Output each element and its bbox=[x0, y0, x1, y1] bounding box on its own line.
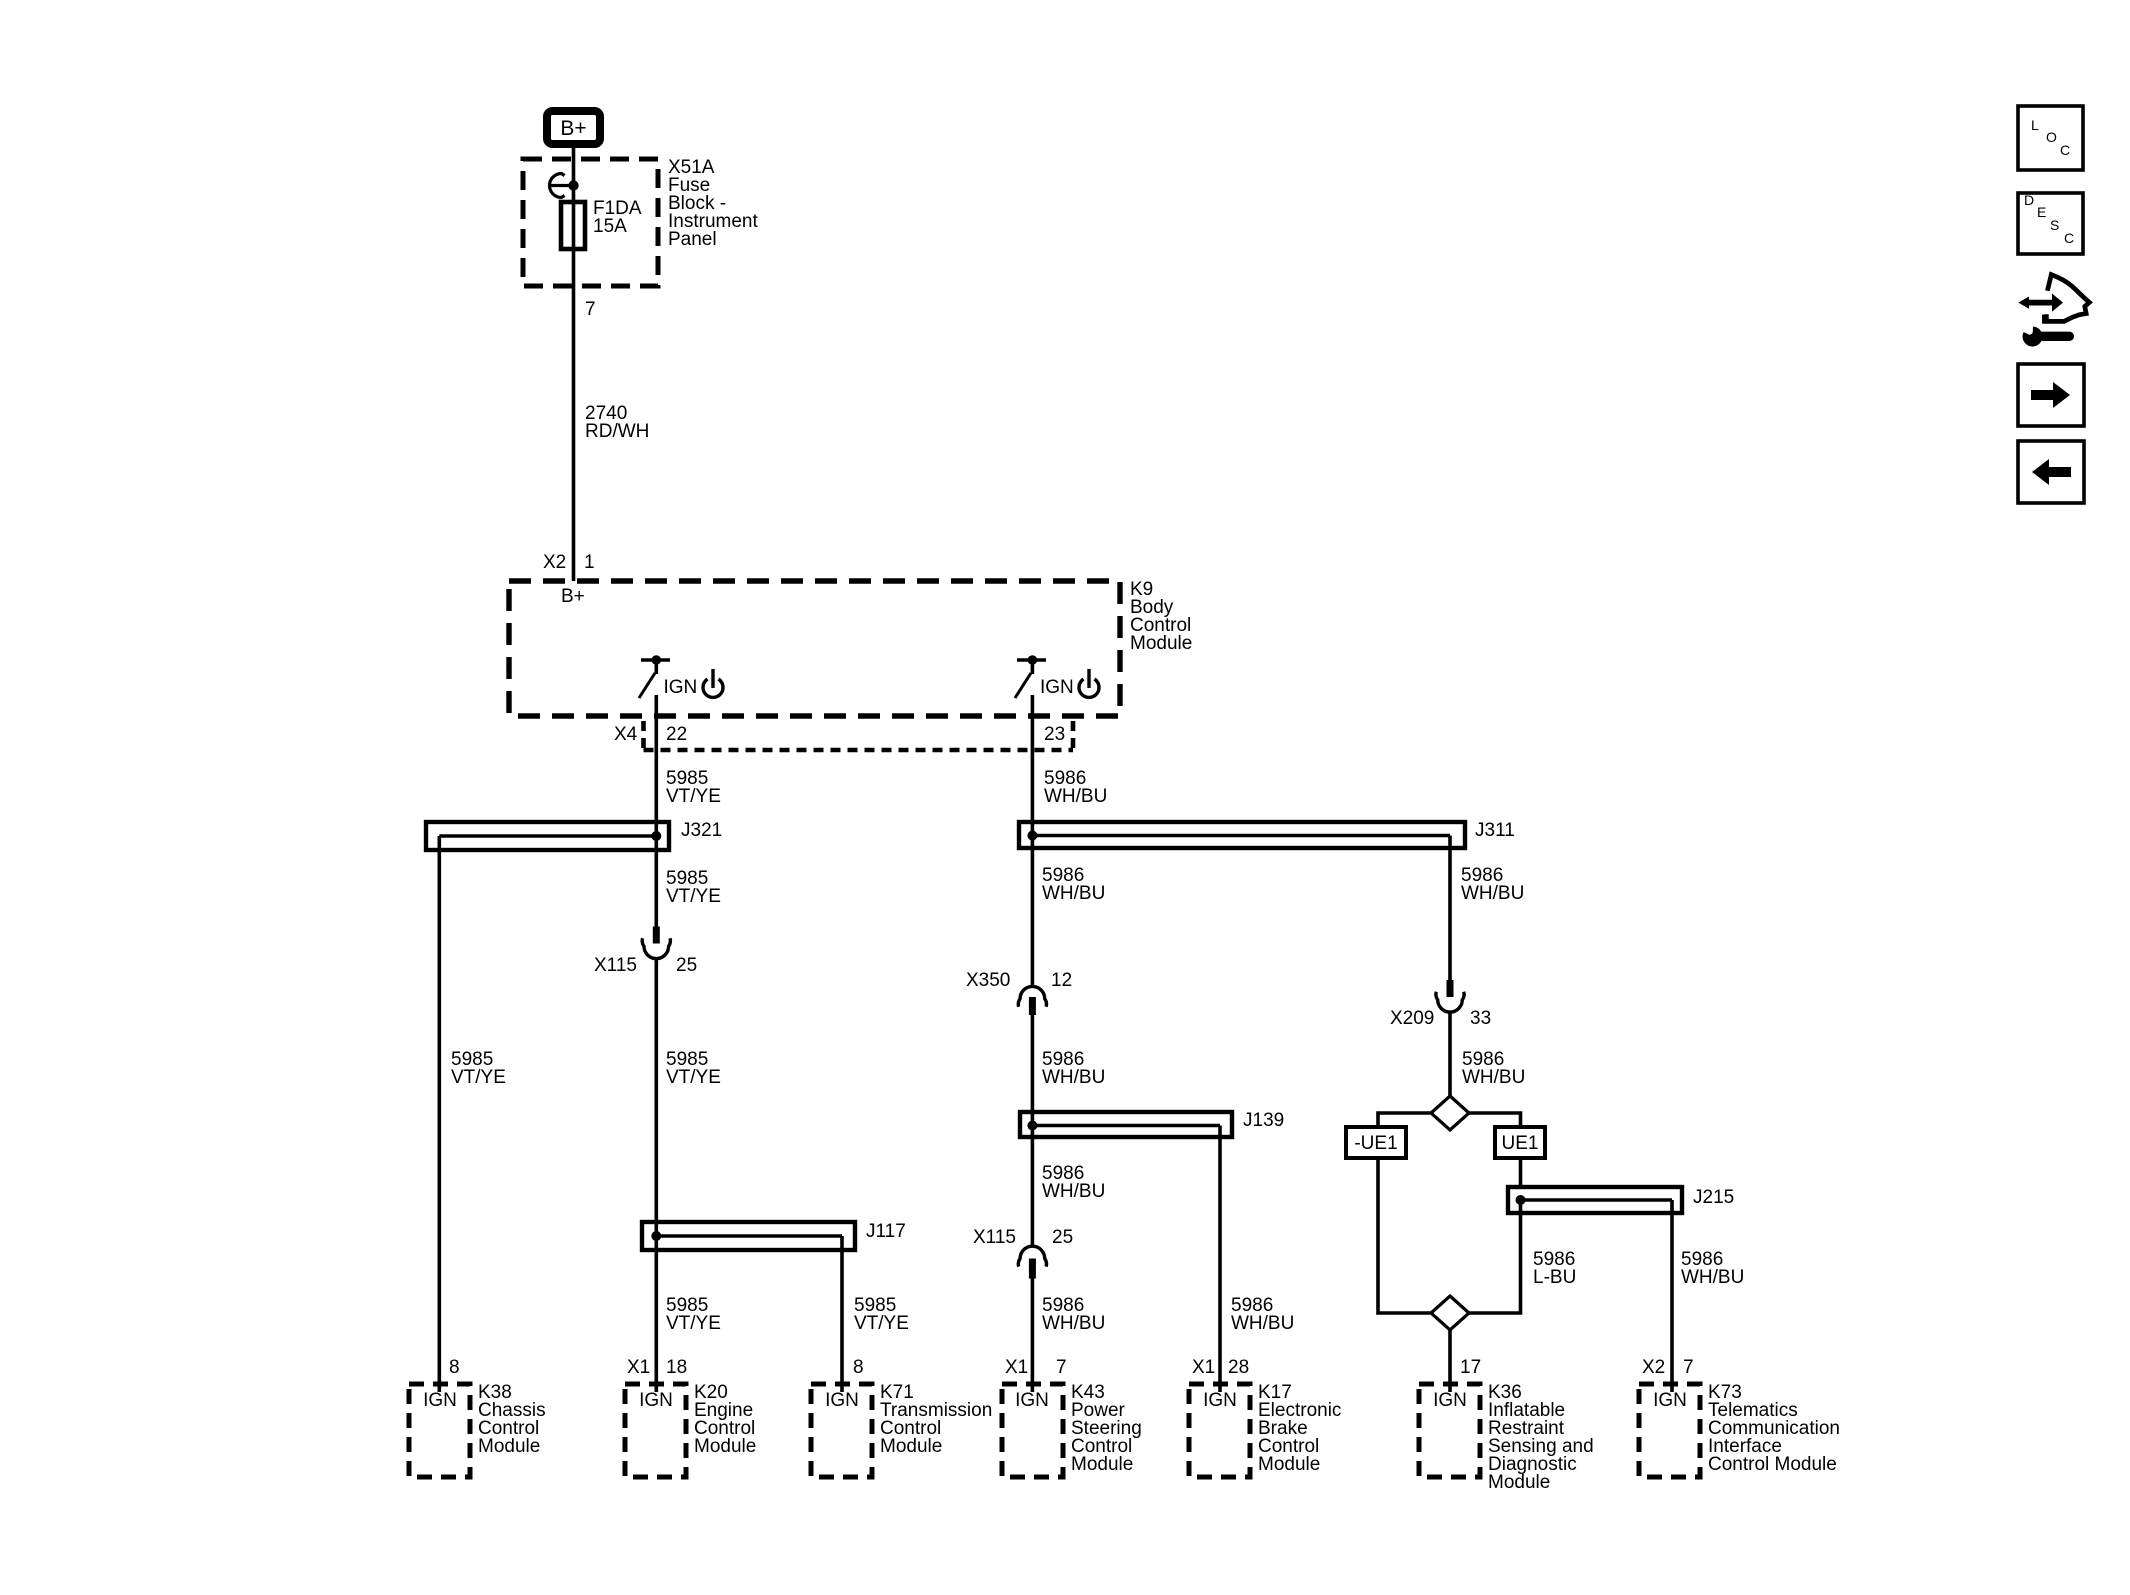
junction dot J215 bbox=[1516, 1195, 1526, 1205]
wire J215 down to lower diamond bbox=[1469, 1200, 1521, 1313]
splice pack J117 bbox=[642, 1222, 855, 1250]
svg-text:VT/YE: VT/YE bbox=[666, 786, 721, 807]
wire label 5986 WH/BU below X209 bbox=[1462, 1049, 1525, 1088]
svg-text:X1: X1 bbox=[1192, 1357, 1215, 1378]
wire label 5985 VT/YE left column bbox=[666, 1049, 721, 1088]
svg-text:17: 17 bbox=[1460, 1357, 1481, 1378]
power steering control module K43 dashed box bbox=[1002, 1384, 1063, 1477]
wire label 5985 VT/YE below J321 bbox=[666, 868, 721, 907]
connector X2 pin 7 labels K73 bbox=[1642, 1357, 1694, 1378]
svg-text:28: 28 bbox=[1228, 1357, 1249, 1378]
connector X1 pin 18 labels K20 bbox=[627, 1357, 687, 1378]
wire label 5985 VT/YE above J321 bbox=[666, 768, 721, 807]
svg-text:J215: J215 bbox=[1693, 1187, 1734, 1208]
fuse block internal terminal hook bbox=[550, 174, 573, 198]
wire diamond to -UE1 bbox=[1378, 1113, 1431, 1127]
next page button bbox=[2018, 364, 2084, 426]
svg-text:IGN: IGN bbox=[639, 1390, 673, 1411]
svg-text:IGN: IGN bbox=[1433, 1390, 1467, 1411]
fuse value label bbox=[593, 198, 642, 237]
wire label 5986 WH/BU middle column bbox=[1042, 1049, 1105, 1088]
svg-text:J117: J117 bbox=[866, 1221, 906, 1242]
wire label 5986 WH/BU above K17 bbox=[1231, 1295, 1294, 1334]
svg-text:Module: Module bbox=[1488, 1472, 1550, 1493]
svg-text:VT/YE: VT/YE bbox=[451, 1067, 506, 1088]
transmission control module K71 dashed box bbox=[811, 1384, 872, 1477]
inline connector X115 pin 25 (middle column) bbox=[1018, 1246, 1046, 1278]
svg-text:WH/BU: WH/BU bbox=[1044, 786, 1107, 807]
svg-text:O: O bbox=[2046, 129, 2057, 145]
connector X1 pin 28 labels K17 bbox=[1192, 1357, 1249, 1378]
inline connector X115 pin 25 (left column) bbox=[642, 927, 670, 959]
wire label 5986 L-BU bbox=[1533, 1249, 1576, 1288]
junction dot on right switch bbox=[1028, 655, 1038, 665]
K17 module name label bbox=[1258, 1382, 1341, 1475]
K36 module name label bbox=[1488, 1382, 1594, 1493]
svg-text:WH/BU: WH/BU bbox=[1461, 883, 1524, 904]
svg-text:1: 1 bbox=[584, 552, 595, 573]
svg-text:7: 7 bbox=[1683, 1357, 1694, 1378]
svg-text:RD/WH: RD/WH bbox=[585, 421, 649, 442]
wire label 5985 VT/YE above K71 bbox=[854, 1295, 909, 1334]
svg-text:X115: X115 bbox=[594, 955, 637, 976]
svg-text:Module: Module bbox=[478, 1436, 540, 1457]
svg-text:IGN: IGN bbox=[664, 677, 698, 698]
body control module K9 dashed box bbox=[509, 581, 1120, 716]
ignition switch right inside K9 bbox=[1015, 660, 1046, 698]
power icon right bbox=[1079, 669, 1099, 697]
svg-text:Module: Module bbox=[1071, 1454, 1133, 1475]
svg-text:VT/YE: VT/YE bbox=[666, 1067, 721, 1088]
wire J311 right branch to X209 bbox=[1448, 836, 1452, 981]
K73 module name label bbox=[1708, 1382, 1840, 1475]
svg-text:S: S bbox=[2050, 217, 2059, 233]
wire label 5986 WH/BU below J139 bbox=[1042, 1163, 1105, 1202]
svg-text:IGN: IGN bbox=[1015, 1390, 1049, 1411]
wire label 2740 RD/WH bbox=[585, 403, 649, 442]
svg-text:8: 8 bbox=[853, 1357, 864, 1378]
svg-text:22: 22 bbox=[666, 724, 687, 745]
telematics module K73 dashed box bbox=[1639, 1384, 1700, 1477]
wire B+ to fuse block and down to K9 pin 1 bbox=[572, 148, 576, 581]
svg-text:X4: X4 bbox=[614, 724, 638, 745]
svg-text:IGN: IGN bbox=[1653, 1390, 1687, 1411]
wire lower diamond to K36 bbox=[1448, 1330, 1452, 1392]
connector X1 pin 7 labels K43 bbox=[1005, 1357, 1067, 1378]
wire 5986 right switch through X4 pin 23 to J311 and X350 bbox=[1031, 695, 1035, 987]
svg-text:18: 18 bbox=[666, 1357, 687, 1378]
svg-text:-UE1: -UE1 bbox=[1354, 1133, 1397, 1154]
svg-text:Control Module: Control Module bbox=[1708, 1454, 1837, 1475]
wire X209 to upper splice diamond bbox=[1448, 1012, 1452, 1098]
svg-text:B+: B+ bbox=[561, 586, 585, 607]
svg-text:7: 7 bbox=[1056, 1357, 1067, 1378]
wire J139 right branch to K17 bbox=[1218, 1126, 1222, 1393]
svg-text:Module: Module bbox=[1258, 1454, 1320, 1475]
net tag UE1 bbox=[1495, 1127, 1545, 1158]
K9 module name label bbox=[1130, 579, 1192, 654]
K43 module name label bbox=[1071, 1382, 1142, 1475]
electronic brake control module K17 dashed box bbox=[1189, 1384, 1250, 1477]
connector X4 dashed outline bbox=[644, 721, 1074, 750]
junction dot on left switch bbox=[652, 655, 662, 665]
svg-text:Module: Module bbox=[880, 1436, 942, 1457]
inline connector X209 pin 33 (right column) bbox=[1436, 980, 1464, 1012]
wire 5985 left switch through X4 pin 22 to J321 and X115 bbox=[654, 695, 658, 927]
junction dot J321 bbox=[651, 831, 661, 841]
wire J321 left branch to K38 bbox=[437, 836, 441, 1392]
wire label 5986 WH/BU J215 branch bbox=[1681, 1249, 1744, 1288]
junction dot J139 bbox=[1027, 1121, 1037, 1131]
svg-text:23: 23 bbox=[1044, 724, 1065, 745]
svg-text:X115: X115 bbox=[973, 1227, 1016, 1248]
lower splice diamond bbox=[1431, 1296, 1469, 1330]
wire J215 right branch to K73 bbox=[1670, 1200, 1674, 1392]
svg-text:VT/YE: VT/YE bbox=[854, 1313, 909, 1334]
svg-text:25: 25 bbox=[1052, 1227, 1073, 1248]
svg-text:VT/YE: VT/YE bbox=[666, 886, 721, 907]
splice pack J311 bbox=[1019, 822, 1465, 848]
inflatable restraint module K36 dashed box bbox=[1419, 1384, 1480, 1477]
junction dot at fuse feed bbox=[568, 180, 578, 190]
wire -UE1 down to lower diamond bbox=[1378, 1158, 1431, 1313]
svg-text:VT/YE: VT/YE bbox=[666, 1313, 721, 1334]
splice pack J215 bbox=[1508, 1187, 1682, 1213]
K38 module name label bbox=[478, 1382, 546, 1457]
svg-text:25: 25 bbox=[676, 955, 697, 976]
net tag -UE1 bbox=[1346, 1127, 1406, 1158]
svg-text:12: 12 bbox=[1051, 970, 1072, 991]
svg-text:IGN: IGN bbox=[1203, 1390, 1237, 1411]
svg-text:X1: X1 bbox=[1005, 1357, 1028, 1378]
svg-text:WH/BU: WH/BU bbox=[1462, 1067, 1525, 1088]
K71 module name label bbox=[880, 1382, 992, 1457]
svg-text:WH/BU: WH/BU bbox=[1042, 1067, 1105, 1088]
DESC button bbox=[2018, 192, 2083, 254]
svg-text:Module: Module bbox=[694, 1436, 756, 1457]
svg-text:E: E bbox=[2037, 204, 2046, 220]
engine control module K20 dashed box bbox=[625, 1384, 686, 1477]
junction dot J117 bbox=[651, 1231, 661, 1241]
K20 module name label bbox=[694, 1382, 756, 1457]
svg-text:D: D bbox=[2024, 192, 2034, 208]
LOC button bbox=[2018, 106, 2083, 170]
svg-text:IGN: IGN bbox=[1040, 677, 1074, 698]
upper splice diamond bbox=[1431, 1096, 1469, 1130]
svg-text:WH/BU: WH/BU bbox=[1231, 1313, 1294, 1334]
wire 5986 X350 through J139 to X115 bbox=[1031, 1015, 1035, 1246]
svg-text:X350: X350 bbox=[966, 970, 1010, 991]
wire label 5986 WH/BU above J311 bbox=[1044, 768, 1107, 807]
svg-text:J311: J311 bbox=[1475, 820, 1515, 841]
svg-text:X2: X2 bbox=[543, 552, 566, 573]
junction dot J311 bbox=[1027, 831, 1037, 841]
svg-text:J321: J321 bbox=[681, 820, 722, 841]
svg-text:X2: X2 bbox=[1642, 1357, 1665, 1378]
svg-text:C: C bbox=[2060, 142, 2070, 158]
svg-text:WH/BU: WH/BU bbox=[1681, 1267, 1744, 1288]
schematic navigation icon bbox=[2018, 275, 2089, 347]
svg-text:33: 33 bbox=[1470, 1008, 1491, 1029]
svg-text:IGN: IGN bbox=[423, 1390, 457, 1411]
svg-text:15A: 15A bbox=[593, 216, 627, 237]
svg-text:Panel: Panel bbox=[668, 229, 717, 250]
svg-text:UE1: UE1 bbox=[1502, 1133, 1539, 1154]
fuse block name label bbox=[668, 157, 758, 250]
svg-text:L: L bbox=[2031, 117, 2039, 133]
fuse block X51A dashed box bbox=[523, 159, 658, 286]
wire label 5986 WH/BU above K43 bbox=[1042, 1295, 1105, 1334]
wire diamond to UE1 bbox=[1469, 1113, 1521, 1127]
chassis control module K38 dashed box bbox=[409, 1384, 470, 1477]
svg-text:WH/BU: WH/BU bbox=[1042, 883, 1105, 904]
wire 5985 X115 through J117 to K20 bbox=[654, 959, 658, 1393]
connector X2 pin 1 labels bbox=[543, 552, 595, 573]
svg-text:C: C bbox=[2064, 230, 2074, 246]
svg-text:IGN: IGN bbox=[825, 1390, 859, 1411]
svg-text:B+: B+ bbox=[560, 117, 586, 140]
svg-text:L-BU: L-BU bbox=[1533, 1267, 1576, 1288]
svg-text:X1: X1 bbox=[627, 1357, 650, 1378]
svg-text:J139: J139 bbox=[1243, 1110, 1284, 1131]
power icon left bbox=[703, 669, 723, 697]
wire UE1 down to J215 bbox=[1519, 1158, 1523, 1187]
wire label 5985 VT/YE K38 branch bbox=[451, 1049, 506, 1088]
svg-text:WH/BU: WH/BU bbox=[1042, 1181, 1105, 1202]
previous page button bbox=[2018, 441, 2084, 503]
splice pack J321 bbox=[426, 822, 669, 850]
wire J117 right branch to K71 bbox=[840, 1236, 844, 1392]
svg-text:8: 8 bbox=[449, 1357, 460, 1378]
splice pack J139 bbox=[1020, 1112, 1232, 1137]
fuse F1DA 15A bbox=[561, 202, 585, 249]
svg-text:7: 7 bbox=[585, 299, 596, 320]
wire label 5986 WH/BU below J311 bbox=[1042, 865, 1105, 904]
wire label 5986 WH/BU right branch bbox=[1461, 865, 1524, 904]
svg-text:WH/BU: WH/BU bbox=[1042, 1313, 1105, 1334]
svg-text:X209: X209 bbox=[1390, 1008, 1434, 1029]
battery feed symbol B+ bbox=[547, 111, 600, 144]
svg-text:Module: Module bbox=[1130, 633, 1192, 654]
inline connector X350 pin 12 (middle column) bbox=[1018, 986, 1046, 1015]
ignition switch left inside K9 bbox=[639, 660, 670, 698]
wire label 5985 VT/YE above K20 bbox=[666, 1295, 721, 1334]
wire 5986 X115 to K43 bbox=[1031, 1279, 1035, 1393]
